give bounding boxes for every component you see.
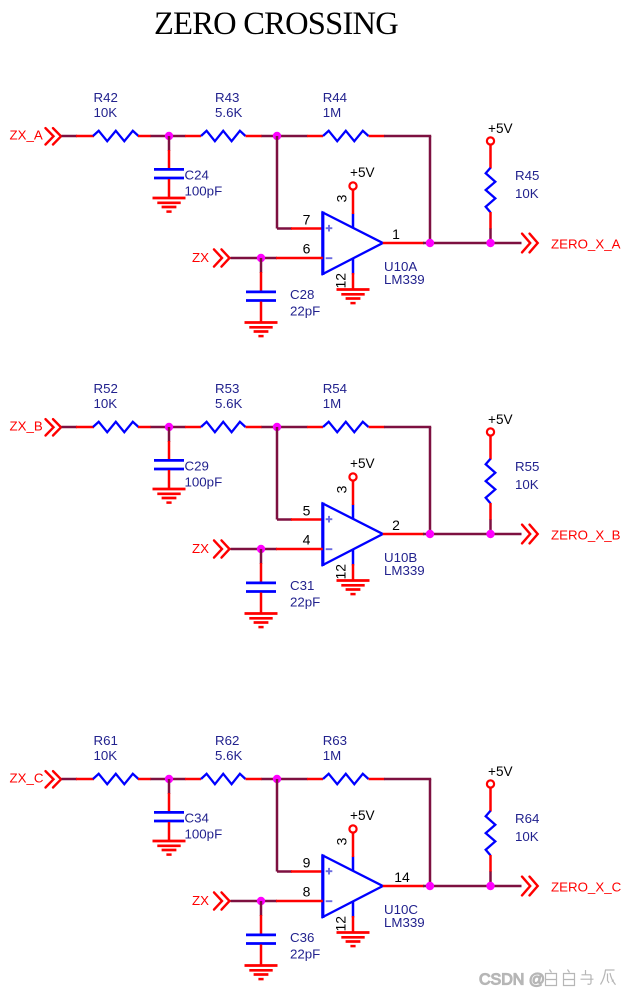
svg-text:R63: R63 — [323, 733, 347, 748]
svg-text:R61: R61 — [94, 733, 118, 748]
svg-text:ZX_C: ZX_C — [10, 771, 44, 786]
svg-text:LM339: LM339 — [384, 915, 425, 930]
wire: R52 to R53 — [151, 426, 186, 429]
junction node 4 (feedback) — [426, 239, 434, 247]
wire: R61 to R62 — [151, 778, 186, 781]
svg-text:5.6K: 5.6K — [215, 748, 242, 763]
svg-text:C36: C36 — [290, 930, 314, 945]
junction node 5 (pull-up) — [486, 882, 494, 890]
power +5V (pin 3) — [349, 808, 374, 857]
svg-text:2: 2 — [392, 517, 400, 533]
svg-text:R62: R62 — [215, 733, 239, 748]
op-amp U10C LM339 — [323, 855, 425, 931]
wire: ZX_C to R61 — [62, 778, 78, 781]
wire: R64 to output node — [489, 872, 492, 887]
junction node 3 — [257, 545, 265, 553]
resistor R44 1M — [307, 90, 385, 141]
svg-text:C29: C29 — [185, 459, 209, 474]
port ZX — [192, 249, 230, 266]
capacitor C24 100pF — [154, 136, 222, 198]
wire: node 3 to op-amp — [276, 257, 323, 260]
watermark CSDN — [479, 970, 616, 989]
power +5V (pin 3) — [349, 456, 374, 505]
wire: op-amp output — [383, 885, 424, 888]
svg-text:12: 12 — [333, 564, 349, 580]
power +5V (R45) — [487, 121, 513, 145]
capacitor C29 100pF — [154, 427, 222, 489]
svg-text:+5V: +5V — [350, 808, 375, 823]
svg-text:5: 5 — [303, 503, 311, 519]
svg-text:10K: 10K — [94, 105, 118, 120]
resistor R43 5.6K — [185, 90, 262, 141]
junction node 4 (feedback) — [426, 530, 434, 538]
svg-text:LM339: LM339 — [384, 272, 425, 287]
svg-text:ZERO_X_B: ZERO_X_B — [551, 528, 621, 543]
svg-text:12: 12 — [333, 916, 349, 932]
svg-text:R42: R42 — [94, 90, 118, 105]
port ZERO_X_B — [522, 525, 621, 544]
svg-text:ZERO_X_C: ZERO_X_C — [551, 880, 622, 895]
svg-text:5.6K: 5.6K — [215, 105, 242, 120]
svg-text:+5V: +5V — [488, 764, 513, 779]
junction node 2 — [273, 775, 281, 783]
junction node 1 — [165, 775, 173, 783]
wire: node 2 down to pin 9 — [276, 779, 279, 872]
resistor R61 10K — [76, 733, 151, 784]
svg-text:22pF: 22pF — [290, 947, 320, 962]
svg-text:R55: R55 — [515, 459, 539, 474]
junction node 5 (pull-up) — [486, 239, 494, 247]
ground (C24) — [153, 198, 186, 212]
svg-text:1M: 1M — [323, 396, 341, 411]
wire: R45 to output node — [489, 229, 492, 244]
svg-text:5.6K: 5.6K — [215, 396, 242, 411]
svg-text:+5V: +5V — [350, 165, 375, 180]
svg-text:10K: 10K — [94, 396, 118, 411]
svg-text:R53: R53 — [215, 381, 239, 396]
junction node 3 — [257, 254, 265, 262]
svg-text:22pF: 22pF — [290, 595, 320, 610]
wire: ZX to pin 4 — [231, 548, 278, 551]
ground (pin 12) — [337, 916, 370, 946]
power +5V (R64) — [487, 764, 513, 788]
power +5V (pin 3) — [349, 165, 374, 214]
svg-text:1: 1 — [392, 226, 400, 242]
op-amp U10B LM339 — [323, 503, 425, 579]
resistor R53 5.6K — [185, 381, 262, 432]
power +5V (R55) — [487, 412, 513, 436]
svg-text:ZX_A: ZX_A — [10, 128, 43, 143]
svg-text:3: 3 — [334, 485, 350, 493]
junction node 2 — [273, 423, 281, 431]
svg-text:1M: 1M — [323, 748, 341, 763]
resistor R55 10K (pull-up) — [486, 436, 540, 521]
svg-text:22pF: 22pF — [290, 304, 320, 319]
wire: R62 to R63 — [262, 778, 308, 781]
svg-text:ZERO CROSSING: ZERO CROSSING — [154, 6, 398, 42]
junction node 2 — [273, 132, 281, 140]
svg-text:3: 3 — [334, 837, 350, 845]
wire: R54 to output node — [384, 426, 431, 429]
ground (pin 12) — [337, 564, 370, 594]
svg-text:10K: 10K — [515, 186, 539, 201]
svg-text:9: 9 — [303, 855, 311, 871]
port ZX — [192, 892, 230, 909]
ground (C28) — [245, 323, 278, 337]
svg-text:CSDN @: CSDN @ — [479, 972, 545, 989]
svg-text:R64: R64 — [515, 811, 539, 826]
ground (C36) — [245, 966, 278, 980]
wire: ZX to pin 6 — [231, 257, 278, 260]
svg-text:+5V: +5V — [488, 121, 513, 136]
junction node 1 — [165, 423, 173, 431]
svg-text:R44: R44 — [323, 90, 347, 105]
svg-text:14: 14 — [394, 869, 410, 885]
svg-text:LM339: LM339 — [384, 563, 425, 578]
junction node 5 (pull-up) — [486, 530, 494, 538]
svg-text:100pF: 100pF — [185, 826, 223, 841]
svg-text:10K: 10K — [515, 829, 539, 844]
resistor R62 5.6K — [185, 733, 262, 784]
resistor R54 1M — [307, 381, 385, 432]
port ZX_A — [10, 128, 62, 145]
svg-text:ZX: ZX — [192, 541, 209, 556]
svg-text:7: 7 — [303, 212, 311, 228]
resistor R63 1M — [307, 733, 385, 784]
svg-text:8: 8 — [303, 884, 311, 900]
svg-text:C24: C24 — [185, 168, 209, 183]
ground (C31) — [245, 614, 278, 628]
resistor R64 10K (pull-up) — [486, 788, 540, 873]
svg-text:R52: R52 — [94, 381, 118, 396]
wire: node 3 to op-amp — [276, 548, 323, 551]
wire: op-amp output — [383, 533, 424, 536]
svg-text:4: 4 — [303, 532, 311, 548]
wire: ZX_B to R52 — [62, 426, 78, 429]
svg-text:ZX: ZX — [192, 250, 209, 265]
svg-text:1M: 1M — [323, 105, 341, 120]
svg-text:C31: C31 — [290, 578, 314, 593]
port ZX — [192, 540, 230, 557]
wire: R53 to R54 — [262, 426, 308, 429]
svg-text:12: 12 — [333, 273, 349, 289]
svg-text:C28: C28 — [290, 287, 314, 302]
wire: node 2 down to pin 5 — [276, 427, 279, 520]
junction node 3 — [257, 897, 265, 905]
wire: R63 to output node — [384, 778, 431, 781]
ground (C34) — [153, 841, 186, 855]
wire: node 2 down to pin 7 — [276, 136, 279, 229]
svg-text:100pF: 100pF — [185, 474, 223, 489]
wire: ZX_A to R42 — [62, 135, 78, 138]
svg-text:3: 3 — [334, 194, 350, 202]
svg-text:100pF: 100pF — [185, 183, 223, 198]
svg-text:R45: R45 — [515, 168, 539, 183]
junction node 4 (feedback) — [426, 882, 434, 890]
wire: ZX to pin 8 — [231, 900, 278, 903]
svg-text:ZX_B: ZX_B — [10, 419, 43, 434]
resistor R45 10K (pull-up) — [486, 145, 540, 230]
junction node 1 — [165, 132, 173, 140]
wire: R42 to R43 — [151, 135, 186, 138]
svg-text:+5V: +5V — [488, 412, 513, 427]
svg-text:6: 6 — [303, 241, 311, 257]
svg-text:+5V: +5V — [350, 456, 375, 471]
resistor R52 10K — [76, 381, 151, 432]
svg-text:10K: 10K — [515, 477, 539, 492]
op-amp U10A LM339 — [323, 212, 425, 288]
svg-text:ZERO_X_A: ZERO_X_A — [551, 237, 621, 252]
capacitor C28 22pF — [246, 258, 320, 323]
svg-text:R54: R54 — [323, 381, 347, 396]
wire: R44 to output node — [384, 135, 431, 138]
svg-text:10K: 10K — [94, 748, 118, 763]
svg-text:C34: C34 — [185, 811, 209, 826]
capacitor C31 22pF — [246, 549, 320, 614]
port ZERO_X_A — [522, 234, 621, 253]
port ZERO_X_C — [522, 877, 622, 896]
wire: node 3 to op-amp — [276, 900, 323, 903]
wire: R55 to output node — [489, 520, 492, 535]
svg-text:ZX: ZX — [192, 893, 209, 908]
port ZX_B — [10, 419, 62, 436]
ground (pin 12) — [337, 273, 370, 303]
ground (C29) — [153, 489, 186, 503]
resistor R42 10K — [76, 90, 151, 141]
wire: R43 to R44 — [262, 135, 308, 138]
capacitor C36 22pF — [246, 901, 320, 966]
svg-text:R43: R43 — [215, 90, 239, 105]
capacitor C34 100pF — [154, 779, 222, 841]
wire: op-amp output — [383, 242, 424, 245]
port ZX_C — [10, 771, 62, 788]
